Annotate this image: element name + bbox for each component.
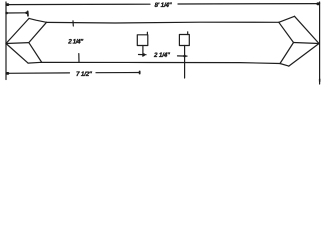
hole spacing left arrow dot <box>142 53 145 56</box>
mortise hole square 2 <box>179 35 189 46</box>
board lower-left silhouette <box>6 44 28 64</box>
short dimension line top-left <box>6 12 28 14</box>
hole spacing arrow left <box>139 54 147 56</box>
board top edge <box>47 21 279 24</box>
board height witness tick top <box>72 21 74 26</box>
short dim left dot <box>5 12 8 15</box>
centerline below square 1 <box>142 46 144 57</box>
board lower-right corner dip <box>280 64 289 67</box>
board upper-left ridge to peak <box>6 18 29 43</box>
witness tick above square 1 <box>146 32 148 35</box>
bottom dimension line left segment <box>6 72 70 74</box>
right tip crease <box>294 43 320 44</box>
left chamfer upper diagonal <box>29 22 47 42</box>
hole spacing arrow right <box>178 55 188 57</box>
board peak-to-top-edge wedge <box>29 18 47 22</box>
svg-text:2 1/4": 2 1/4" <box>153 52 171 59</box>
overall dimension line right segment <box>178 3 320 5</box>
board bottom edge <box>28 62 280 63</box>
svg-text:8' 1/4": 8' 1/4" <box>155 2 173 9</box>
right chamfer lower diagonal <box>280 43 294 64</box>
bottom dimension line right segment <box>96 72 140 74</box>
arrowhead top-right <box>317 2 320 5</box>
bottom dim left arrowhead <box>6 72 9 75</box>
overall dimension line left segment <box>6 3 150 5</box>
hole spacing right arrow dot <box>183 55 186 58</box>
svg-text:7 1/2": 7 1/2" <box>76 71 93 78</box>
right extension bottom blob <box>319 79 321 83</box>
board upper-right ridge from peak to tip <box>295 16 320 43</box>
left extension line <box>5 2 7 80</box>
left chamfer lower diagonal <box>29 43 42 62</box>
mortise hole square 1 <box>137 35 148 46</box>
centerline below square 2 <box>184 46 186 79</box>
right chamfer upper diagonal <box>279 22 294 42</box>
board height witness tick bottom <box>78 54 80 62</box>
board lower-right silhouette to tip <box>289 44 319 67</box>
svg-text:2 1/4": 2 1/4" <box>67 39 84 46</box>
arrowhead top-left <box>6 3 9 6</box>
witness tick above square 2 <box>187 32 189 35</box>
right extension line <box>319 2 321 84</box>
left tip crease <box>6 42 29 45</box>
short dimension end tick <box>27 11 29 15</box>
board right back-top ridge <box>279 16 295 22</box>
short dim right dot <box>25 12 28 15</box>
bottom dim right arrowhead <box>139 71 141 75</box>
